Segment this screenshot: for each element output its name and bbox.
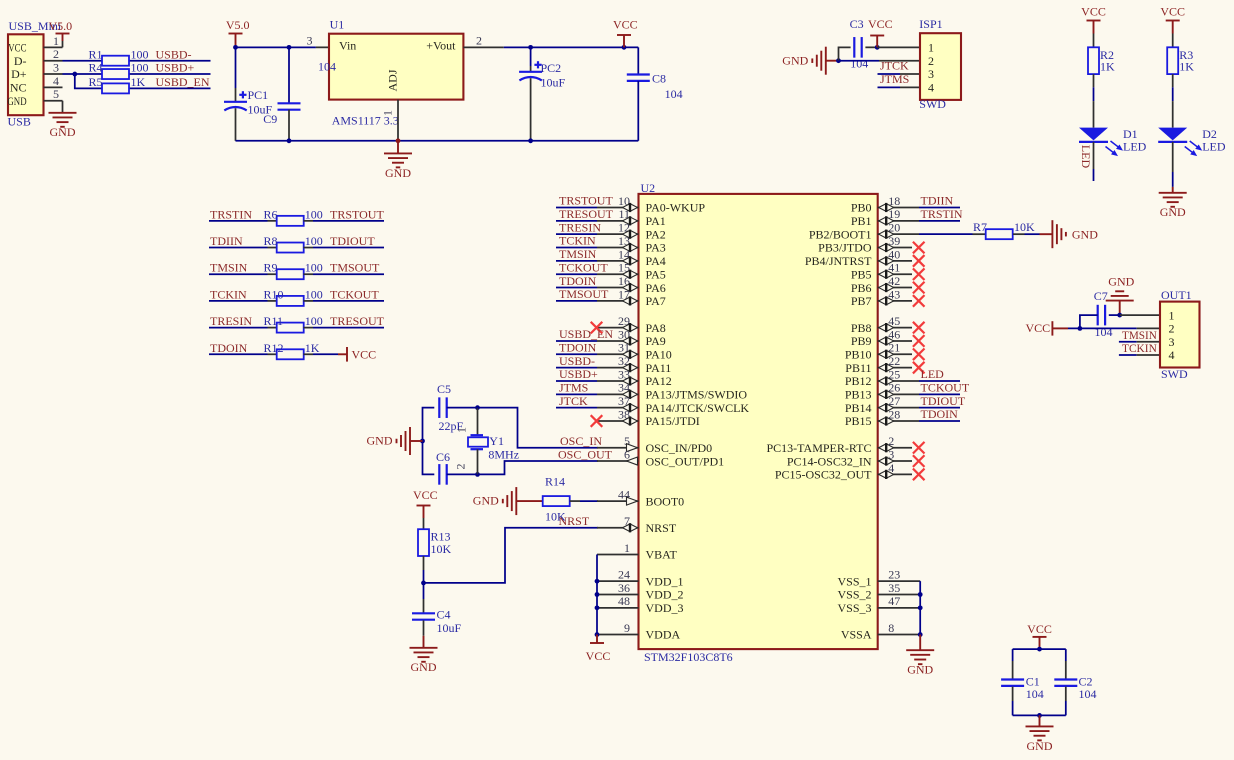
svg-text:USBD_EN: USBD_EN bbox=[156, 75, 210, 89]
wire bbox=[304, 327, 385, 329]
svg-text:1: 1 bbox=[455, 427, 469, 433]
svg-text:PB0: PB0 bbox=[851, 201, 872, 215]
svg-text:PA11: PA11 bbox=[646, 361, 672, 375]
U2 pin 30 PA9 bbox=[597, 327, 666, 348]
net TRESOUT bbox=[556, 207, 614, 221]
resistor R5 1K bbox=[89, 75, 146, 94]
svg-text:OSC_IN: OSC_IN bbox=[560, 434, 602, 448]
svg-text:R14: R14 bbox=[545, 474, 565, 488]
svg-text:1: 1 bbox=[381, 110, 395, 116]
wire VDD bus bbox=[596, 554, 598, 634]
power VCC (R13) bbox=[413, 488, 438, 518]
U2 pin 34 PA13/JTMS/SWDIO bbox=[597, 381, 747, 402]
svg-text:TDIIN: TDIIN bbox=[921, 194, 954, 208]
svg-text:GND: GND bbox=[1027, 739, 1053, 753]
net USBD_EN bbox=[156, 75, 210, 89]
wire D1 cathode bbox=[1093, 142, 1095, 181]
net TDIIN bbox=[919, 194, 960, 208]
power VCC (regulator output) bbox=[613, 18, 638, 48]
svg-text:NRST: NRST bbox=[559, 514, 590, 528]
wire D- net bbox=[63, 60, 211, 62]
svg-text:VCC: VCC bbox=[868, 17, 893, 31]
svg-text:PB4/JNTRST: PB4/JNTRST bbox=[805, 254, 872, 268]
svg-text:TCKOUT: TCKOUT bbox=[921, 381, 970, 395]
junction Y1 pin1 bbox=[475, 405, 480, 410]
svg-text:3: 3 bbox=[53, 60, 59, 74]
svg-text:TRESIN: TRESIN bbox=[559, 220, 601, 234]
svg-text:PA13/JTMS/SWDIO: PA13/JTMS/SWDIO bbox=[646, 388, 748, 402]
svg-text:3: 3 bbox=[1169, 335, 1175, 349]
capacitor C2 104 bbox=[1054, 649, 1096, 715]
svg-text:100: 100 bbox=[305, 287, 323, 301]
svg-text:GND: GND bbox=[1072, 227, 1098, 241]
svg-text:VCC: VCC bbox=[1027, 622, 1052, 636]
svg-text:C7: C7 bbox=[1094, 289, 1108, 303]
wire VSS bus bbox=[919, 581, 921, 634]
power VCC (OUT1) bbox=[1026, 321, 1069, 336]
U2 pin 19 PB1 bbox=[851, 207, 919, 228]
svg-text:OSC_OUT/PD1: OSC_OUT/PD1 bbox=[646, 454, 725, 468]
U2 pin 48 VDD_3 bbox=[597, 594, 684, 615]
U2 pin 43 PB7 bbox=[851, 287, 912, 308]
net OSC_OUT bbox=[558, 447, 613, 461]
net TCKOUT bbox=[919, 381, 970, 395]
resistor R11 100 bbox=[264, 314, 323, 333]
ground (D2) bbox=[1159, 187, 1187, 219]
svg-text:PB8: PB8 bbox=[851, 321, 872, 335]
svg-text:Y1: Y1 bbox=[489, 434, 504, 448]
svg-text:PA3: PA3 bbox=[646, 241, 666, 255]
svg-text:TRSTOUT: TRSTOUT bbox=[330, 207, 384, 221]
U2 pin 46 PB9 bbox=[851, 327, 912, 348]
svg-text:TCKIN: TCKIN bbox=[1122, 341, 1157, 355]
U2 pin 32 PA11 bbox=[597, 354, 671, 375]
svg-text:100: 100 bbox=[305, 261, 323, 275]
U2 pin 12 PA2 bbox=[597, 221, 666, 242]
net NRST bbox=[559, 514, 590, 528]
net USBD- bbox=[156, 47, 192, 61]
svg-text:C4: C4 bbox=[437, 607, 451, 621]
svg-text:GND: GND bbox=[7, 94, 26, 108]
junction VDD bus bbox=[595, 592, 600, 597]
U2 pin 26 PB13 bbox=[845, 381, 919, 402]
svg-text:35: 35 bbox=[888, 581, 900, 595]
connector ISP1 SWD bbox=[919, 17, 961, 111]
net TCKOUT bbox=[556, 260, 608, 274]
wire C6 to Y1 bbox=[447, 473, 478, 475]
net TDIOUT bbox=[330, 234, 375, 248]
svg-text:VCC: VCC bbox=[1026, 321, 1051, 335]
svg-text:PB13: PB13 bbox=[845, 388, 872, 402]
svg-text:TMSIN: TMSIN bbox=[210, 261, 248, 275]
svg-text:R10: R10 bbox=[264, 287, 284, 301]
junction VDD bus bbox=[595, 632, 600, 637]
svg-text:PA2: PA2 bbox=[646, 227, 666, 241]
svg-text:6: 6 bbox=[624, 447, 630, 461]
wire bbox=[304, 353, 339, 355]
svg-text:TRESIN: TRESIN bbox=[210, 314, 252, 328]
net TCKOUT bbox=[330, 287, 379, 301]
svg-text:TRSTIN: TRSTIN bbox=[921, 207, 963, 221]
svg-text:LED: LED bbox=[921, 367, 945, 381]
svg-text:TMSIN: TMSIN bbox=[559, 247, 597, 261]
svg-text:R4: R4 bbox=[89, 61, 103, 75]
svg-text:PA8: PA8 bbox=[646, 321, 666, 335]
wire C1C2 top rail bbox=[1013, 648, 1066, 650]
junction C3/GND bbox=[836, 58, 841, 63]
svg-text:4: 4 bbox=[53, 74, 59, 88]
svg-text:D-: D- bbox=[14, 54, 27, 68]
svg-text:PB14: PB14 bbox=[845, 401, 872, 415]
net TRESIN bbox=[556, 220, 601, 234]
U2 pin 22 PB11 bbox=[845, 354, 912, 375]
junction V5.0/PC1 bbox=[233, 45, 238, 50]
svg-text:TDOIN: TDOIN bbox=[921, 407, 959, 421]
wire bbox=[209, 220, 277, 222]
no-connect U2 pin 46 bbox=[913, 335, 925, 347]
power V5.0 (regulator input) bbox=[226, 18, 250, 47]
wire ISP1 pin2 bbox=[839, 60, 921, 62]
U2 pin 29 PA8 bbox=[597, 314, 666, 335]
junction VDD bus bbox=[595, 579, 600, 584]
LED D1 bbox=[1079, 127, 1147, 156]
svg-text:104: 104 bbox=[1079, 687, 1097, 701]
resistor R13 10K bbox=[418, 518, 452, 556]
svg-text:PC14-OSC32_IN: PC14-OSC32_IN bbox=[787, 454, 872, 468]
junction PC2 bottom bbox=[528, 138, 533, 143]
IC U2 STM32F103C8T6 bbox=[639, 181, 878, 664]
net USBD_EN bbox=[556, 327, 613, 341]
svg-text:PA7: PA7 bbox=[646, 294, 666, 308]
svg-text:TDOIN: TDOIN bbox=[559, 340, 597, 354]
svg-text:U2: U2 bbox=[641, 181, 656, 195]
svg-text:R7: R7 bbox=[973, 220, 987, 234]
net TMSOUT bbox=[556, 287, 609, 301]
net TDOIN bbox=[919, 407, 960, 421]
svg-text:100: 100 bbox=[305, 207, 323, 221]
svg-text:D+: D+ bbox=[11, 67, 27, 81]
svg-text:GND: GND bbox=[907, 663, 933, 677]
net TMSOUT bbox=[330, 261, 380, 275]
net TCKIN bbox=[1119, 341, 1157, 355]
wire bbox=[304, 300, 385, 302]
ground (OUT1 pin1) bbox=[1106, 275, 1135, 316]
net TRSTIN bbox=[210, 207, 252, 221]
U2 pin 8 VSSA bbox=[841, 621, 920, 642]
U2 pin 5 OSC_IN/PD0 bbox=[597, 434, 712, 455]
wire ISP1 pin4 bbox=[900, 86, 920, 88]
svg-text:VSS_3: VSS_3 bbox=[837, 601, 871, 615]
wire USBD_EN branch bbox=[75, 74, 211, 88]
net TRESIN bbox=[210, 314, 252, 328]
wire R2 to D1 bbox=[1093, 74, 1095, 128]
wire ISP1 pin3 bbox=[900, 73, 920, 75]
svg-text:1K: 1K bbox=[1100, 60, 1115, 74]
wire VCC rail bbox=[504, 46, 639, 48]
svg-text:2: 2 bbox=[476, 33, 482, 47]
U2 pin 3 PC14-OSC32_IN bbox=[787, 447, 912, 468]
svg-text:1: 1 bbox=[1169, 308, 1175, 322]
svg-text:PA6: PA6 bbox=[646, 281, 666, 295]
U2 pin 25 PB12 bbox=[845, 367, 919, 388]
U2 pin 1 VBAT bbox=[597, 541, 678, 562]
svg-text:TRSTOUT: TRSTOUT bbox=[559, 194, 613, 208]
crystal Y1 8MHz bbox=[454, 408, 520, 475]
svg-text:4: 4 bbox=[1169, 348, 1175, 362]
svg-text:PA9: PA9 bbox=[646, 334, 666, 348]
svg-text:PB12: PB12 bbox=[845, 374, 872, 388]
wire bbox=[209, 273, 277, 275]
resistor R12 1K bbox=[264, 341, 320, 360]
svg-text:STM32F103C8T6: STM32F103C8T6 bbox=[644, 650, 733, 664]
power VCC (U2 supply) bbox=[586, 635, 611, 663]
wire OUT1 pin1 bbox=[1109, 314, 1160, 316]
svg-text:GND: GND bbox=[50, 125, 76, 139]
svg-text:TRESOUT: TRESOUT bbox=[330, 314, 385, 328]
svg-text:PA10: PA10 bbox=[646, 347, 672, 361]
wire bbox=[209, 353, 277, 355]
svg-text:R11: R11 bbox=[264, 314, 284, 328]
wire bbox=[209, 300, 277, 302]
svg-text:VBAT: VBAT bbox=[646, 548, 678, 562]
svg-text:PB9: PB9 bbox=[851, 334, 872, 348]
power VCC (R12) bbox=[338, 347, 376, 362]
svg-text:C3: C3 bbox=[850, 17, 864, 31]
svg-text:PB7: PB7 bbox=[851, 294, 872, 308]
svg-text:SWD: SWD bbox=[1161, 367, 1188, 381]
junction VSS bus bbox=[918, 592, 923, 597]
pin 2 stub U1 Vout bbox=[463, 33, 503, 47]
resistor R6 100 bbox=[264, 207, 323, 226]
svg-text:10K: 10K bbox=[431, 542, 452, 556]
net TRSTOUT bbox=[330, 207, 384, 221]
svg-text:TCKOUT: TCKOUT bbox=[330, 287, 379, 301]
net TRESOUT bbox=[330, 314, 385, 328]
U2 pin 9 VDDA bbox=[597, 621, 680, 642]
svg-text:ISP1: ISP1 bbox=[919, 17, 942, 31]
net LED (rotated) bbox=[1079, 145, 1093, 169]
U2 pin 38 PA15/JTDI bbox=[597, 407, 700, 428]
svg-text:104: 104 bbox=[1095, 325, 1113, 339]
resistor R2 1K bbox=[1088, 47, 1115, 74]
svg-text:TCKIN: TCKIN bbox=[210, 287, 247, 301]
svg-text:5: 5 bbox=[53, 87, 59, 101]
power VCC (C1 C2) bbox=[1027, 622, 1052, 649]
junction VCC/OUT1 pin2 bbox=[1078, 326, 1083, 331]
net TDIIN bbox=[210, 234, 243, 248]
svg-text:1K: 1K bbox=[131, 75, 146, 89]
svg-text:TRESOUT: TRESOUT bbox=[559, 207, 614, 221]
wire NRST bbox=[425, 528, 599, 583]
svg-text:8MHz: 8MHz bbox=[488, 448, 519, 462]
svg-text:C6: C6 bbox=[436, 450, 450, 464]
svg-text:PA14/JTCK/SWCLK: PA14/JTCK/SWCLK bbox=[646, 401, 750, 415]
wire crystal left loop bbox=[423, 408, 435, 475]
svg-text:PA5: PA5 bbox=[646, 267, 666, 281]
svg-text:V5.0: V5.0 bbox=[226, 18, 250, 32]
LED D2 bbox=[1158, 127, 1226, 156]
resistor R8 100 bbox=[264, 234, 323, 253]
net TCKIN bbox=[556, 234, 597, 248]
svg-text:USBD+: USBD+ bbox=[559, 367, 598, 381]
no-connect U2 pin 43 bbox=[913, 295, 925, 307]
svg-text:GND: GND bbox=[367, 434, 393, 448]
svg-text:104: 104 bbox=[1026, 687, 1044, 701]
U2 pin 20 PB2/BOOT1 bbox=[809, 221, 919, 242]
svg-text:VSS_2: VSS_2 bbox=[837, 588, 871, 602]
svg-text:JTCK: JTCK bbox=[559, 394, 588, 408]
svg-text:24: 24 bbox=[618, 568, 630, 582]
capacitor C3 104 bbox=[850, 17, 869, 71]
svg-text:NC: NC bbox=[10, 81, 27, 95]
wire C5 to Y1 bbox=[447, 407, 478, 409]
svg-text:PA0-WKUP: PA0-WKUP bbox=[646, 201, 706, 215]
svg-text:PB15: PB15 bbox=[845, 414, 872, 428]
svg-text:1: 1 bbox=[624, 541, 630, 555]
capacitor C6 bbox=[436, 450, 450, 484]
junction D+ bbox=[72, 72, 77, 77]
svg-text:1: 1 bbox=[53, 34, 59, 48]
regulator U1 AMS1117-3.3 bbox=[318, 18, 463, 141]
net USBD+ bbox=[556, 367, 598, 381]
junction C1C2 GND bbox=[1037, 713, 1042, 718]
wire R7 to GND bbox=[1013, 233, 1052, 235]
wire D2 cathode bbox=[1172, 142, 1174, 187]
svg-text:U1: U1 bbox=[330, 18, 345, 32]
svg-text:R9: R9 bbox=[264, 261, 278, 275]
svg-text:10K: 10K bbox=[1014, 220, 1035, 234]
svg-text:VDDA: VDDA bbox=[646, 628, 681, 642]
svg-text:VCC: VCC bbox=[352, 348, 377, 362]
power V5.0 (USB pin 1) bbox=[49, 19, 73, 47]
U2 pin 42 PB6 bbox=[851, 274, 912, 295]
svg-text:100: 100 bbox=[305, 234, 323, 248]
no-connect U2 pin 2 bbox=[913, 442, 925, 454]
svg-text:GND: GND bbox=[411, 660, 437, 674]
wire C1C2 bottom rail bbox=[1013, 714, 1066, 716]
svg-text:TDIIN: TDIIN bbox=[210, 234, 243, 248]
svg-text:ADJ: ADJ bbox=[386, 69, 400, 91]
svg-text:C8: C8 bbox=[652, 71, 666, 85]
resistor R3 1K bbox=[1167, 47, 1194, 74]
U2 pin 44 BOOT0 bbox=[597, 487, 684, 508]
wire bbox=[209, 327, 277, 329]
ground (C4) bbox=[410, 636, 438, 674]
ground (USB pin 5) bbox=[49, 101, 77, 139]
junction VSS bus bbox=[918, 605, 923, 610]
svg-text:3: 3 bbox=[928, 67, 934, 81]
svg-text:SWD: SWD bbox=[919, 97, 946, 111]
resistor R9 100 bbox=[264, 261, 323, 280]
wire D+ net bbox=[63, 73, 211, 75]
net TDOIN bbox=[556, 274, 597, 288]
junction C1C2 VCC bbox=[1037, 647, 1042, 652]
svg-text:TCKIN: TCKIN bbox=[559, 234, 596, 248]
svg-text:36: 36 bbox=[618, 581, 630, 595]
svg-text:PA1: PA1 bbox=[646, 214, 666, 228]
power VCC (ISP1) bbox=[868, 17, 893, 47]
svg-text:VSSA: VSSA bbox=[841, 628, 872, 642]
svg-text:TRSTIN: TRSTIN bbox=[210, 207, 252, 221]
svg-text:PB6: PB6 bbox=[851, 281, 872, 295]
svg-text:2: 2 bbox=[1169, 322, 1175, 336]
svg-text:LED: LED bbox=[1202, 140, 1226, 154]
U2 pin 24 VDD_1 bbox=[597, 568, 684, 589]
svg-text:TDOIN: TDOIN bbox=[559, 274, 597, 288]
svg-text:PB2/BOOT1: PB2/BOOT1 bbox=[809, 227, 872, 241]
resistor R10 100 bbox=[264, 287, 323, 306]
net TMSIN bbox=[1119, 328, 1157, 342]
junction Y1 pin2 bbox=[475, 472, 480, 477]
net TCKIN bbox=[210, 287, 247, 301]
U2 pin 35 VSS_2 bbox=[837, 581, 920, 602]
capacitor PC2 10uF (polarized) bbox=[519, 47, 565, 140]
svg-text:47: 47 bbox=[888, 594, 900, 608]
no-connect U2 pin 38 bbox=[591, 415, 603, 427]
junction U1 ADJ bbox=[396, 138, 401, 143]
svg-text:VCC: VCC bbox=[613, 18, 638, 32]
svg-text:100: 100 bbox=[131, 61, 149, 75]
no-connect U2 pin 3 bbox=[913, 455, 925, 467]
svg-text:R5: R5 bbox=[89, 75, 103, 89]
capacitor C9 104 bbox=[263, 47, 300, 140]
junction VCC bbox=[622, 45, 627, 50]
net TMSIN bbox=[210, 261, 248, 275]
resistor R1 100 bbox=[89, 47, 149, 65]
U2 pin 11 PA1 bbox=[597, 207, 666, 228]
svg-text:OUT1: OUT1 bbox=[1161, 288, 1192, 302]
svg-text:C5: C5 bbox=[437, 382, 451, 396]
U2 pin 7 NRST bbox=[597, 514, 677, 535]
wire bbox=[304, 273, 385, 275]
no-connect U2 pin 29 bbox=[591, 322, 603, 334]
wire R3 to D2 bbox=[1172, 74, 1174, 128]
svg-text:100: 100 bbox=[131, 47, 149, 61]
svg-text:1K: 1K bbox=[1179, 60, 1194, 74]
ground (C3) bbox=[782, 47, 838, 75]
capacitor C1 104 bbox=[1001, 649, 1044, 715]
svg-text:R12: R12 bbox=[264, 341, 284, 355]
svg-text:GND: GND bbox=[473, 494, 499, 508]
wire OUT1 pin4 bbox=[1137, 354, 1160, 356]
net JTMS bbox=[556, 381, 597, 395]
U2 pin 16 PA6 bbox=[597, 274, 666, 295]
svg-text:3: 3 bbox=[307, 33, 313, 47]
svg-text:LED: LED bbox=[1079, 145, 1093, 169]
svg-text:PC13-TAMPER-RTC: PC13-TAMPER-RTC bbox=[767, 441, 872, 455]
svg-text:PB3/JTDO: PB3/JTDO bbox=[818, 241, 872, 255]
junction PC2 top bbox=[528, 45, 533, 50]
svg-text:USBD_EN: USBD_EN bbox=[559, 327, 613, 341]
connector OUT1 SWD bbox=[1160, 288, 1200, 381]
svg-text:PC2: PC2 bbox=[541, 61, 562, 75]
wire ISP1 pin1 bbox=[877, 46, 920, 48]
svg-text:PB11: PB11 bbox=[845, 361, 871, 375]
U2 pin 37 PA14/JTCK/SWCLK bbox=[597, 394, 749, 415]
svg-text:1: 1 bbox=[928, 41, 934, 55]
svg-text:V5.0: V5.0 bbox=[49, 19, 73, 33]
U2 pin 31 PA10 bbox=[597, 341, 672, 362]
svg-text:PB5: PB5 bbox=[851, 267, 872, 281]
svg-text:TCKOUT: TCKOUT bbox=[559, 260, 608, 274]
svg-text:104: 104 bbox=[850, 57, 868, 71]
net TRSTOUT bbox=[556, 194, 613, 208]
svg-text:TDIOUT: TDIOUT bbox=[921, 394, 966, 408]
svg-text:TDOIN: TDOIN bbox=[210, 341, 248, 355]
junction NRST/R13/C4 bbox=[421, 581, 426, 586]
svg-text:PC15-OSC32_OUT: PC15-OSC32_OUT bbox=[775, 468, 872, 482]
svg-text:8: 8 bbox=[888, 621, 894, 635]
